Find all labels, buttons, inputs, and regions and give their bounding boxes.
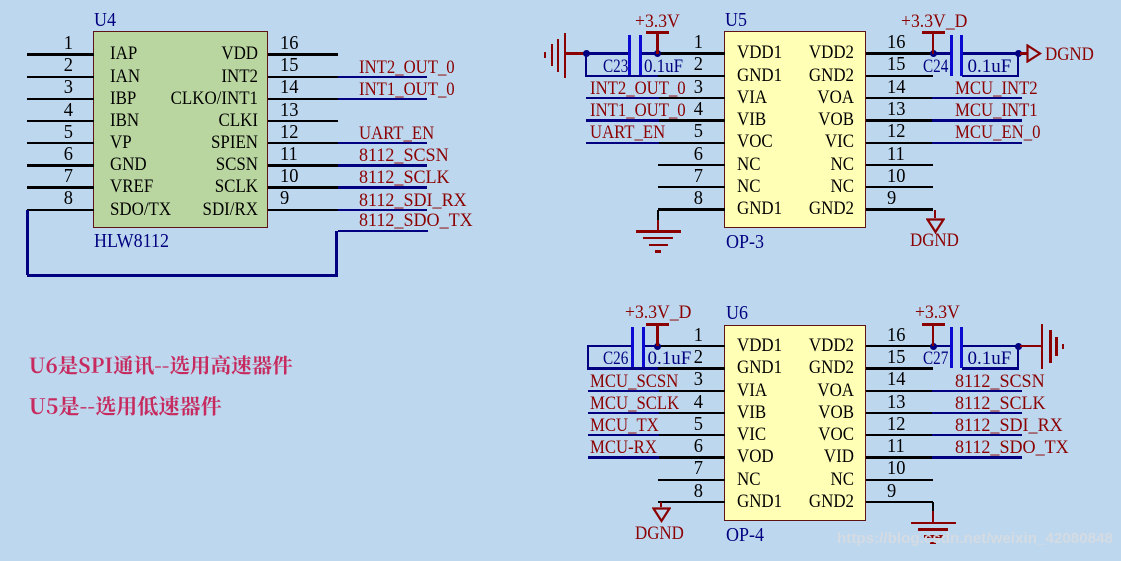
wire U4 pin8 down	[26, 210, 28, 276]
wire C23 left drop	[585, 54, 587, 76]
net label 8112_SCLK	[359, 168, 450, 187]
net label MCU_SCLK	[590, 394, 679, 413]
U4 pin name SPIEN	[142, 133, 258, 152]
wire C26 bottom to U6 pin2	[587, 367, 658, 369]
junction node U6 pin1	[654, 343, 661, 350]
capacitor value 0.1uF C23	[644, 57, 683, 76]
U5 pin 13 wire	[866, 119, 933, 121]
U6 pin 8 wire	[658, 501, 725, 503]
U6 pin name GND1	[737, 358, 782, 377]
power symbol +3.3V	[0, 0, 1121, 1]
U6 pin name VIC	[737, 425, 766, 444]
U6 pin 4 wire	[658, 412, 725, 414]
U5 pin name GND1	[737, 199, 782, 218]
U4 pin 6 wire	[27, 164, 94, 166]
U6 pin 3 number	[667, 369, 703, 390]
U5 pin 12 wire	[866, 142, 933, 144]
U5 pin name GND1	[737, 66, 782, 85]
part name HLW8112	[94, 231, 169, 251]
U4 pin 9 wire	[268, 209, 338, 211]
U6 pin 1 number	[667, 325, 703, 346]
power symbol +3.3V	[0, 0, 1121, 1]
U5 pin 16 wire	[866, 52, 933, 54]
U6 pin 10 number	[887, 458, 905, 479]
U5 pin 11 wire	[866, 164, 933, 166]
power label DGND U6 pin8	[635, 524, 684, 543]
U4 pin 15 number	[280, 55, 298, 76]
wire junction to earth	[1020, 345, 1043, 347]
designator U5	[725, 10, 747, 30]
U6 pin 7 number	[667, 458, 703, 479]
U6 pin 4 number	[667, 392, 703, 413]
net label 8112_SDI_RX	[359, 191, 467, 210]
wire C23 to junction	[642, 52, 657, 54]
wire net MCU_TX to U6	[588, 434, 659, 436]
U5 pin 9 wire	[866, 208, 933, 210]
capacitor C27 plates	[0, 0, 1121, 1]
U5 pin name NC	[738, 155, 854, 174]
U6 pin 13 wire	[866, 412, 933, 414]
U4 pin 4 wire	[27, 120, 94, 122]
U4 pin 14 number	[280, 77, 298, 98]
net label INT2_OUT_0	[590, 79, 686, 98]
wire net INT2_OUT_0 to U5	[586, 97, 659, 99]
U6 pin 6 wire	[658, 456, 725, 458]
net label MCU-RX	[590, 438, 657, 457]
U5 pin name VIC	[738, 132, 854, 151]
U4 pin 13 wire	[268, 120, 338, 122]
U4 pin name CLKO/INT1	[142, 89, 258, 108]
U5 pin 2 number	[667, 54, 703, 75]
wire net UART_EN to U5	[586, 142, 659, 144]
U5 pin 9 number	[887, 188, 896, 209]
wire U6 pin8 to DGND	[660, 502, 663, 507]
IC U5 OP-3 body	[724, 31, 866, 228]
U4 pin 1 wire	[27, 53, 94, 55]
U5 pin name NC	[738, 177, 854, 196]
capacitor C23 plates	[0, 0, 1121, 1]
U4 pin name IBN	[110, 111, 139, 130]
U4 pin 12 wire	[268, 142, 338, 144]
U6 pin 12 wire	[866, 434, 933, 436]
wire C26 left drop	[587, 346, 589, 367]
U5 pin 15 number	[887, 54, 905, 75]
wire net 8112_SCLK from U6	[932, 412, 1022, 414]
U5 pin 10 wire	[866, 186, 933, 188]
wire loop top to C26	[587, 345, 631, 347]
net label MCU_SCSN	[590, 372, 678, 391]
U4 pin 7 wire	[27, 186, 94, 188]
U4 pin 1 number	[37, 33, 73, 54]
U4 pin name VP	[110, 133, 132, 152]
wire U6 pin9 down	[932, 502, 934, 512]
U6 pin name VID	[738, 447, 854, 466]
capacitor value 0.1uF C24	[968, 57, 1012, 76]
U5 pin name VOB	[738, 110, 854, 129]
wire U5 pin9 to DGND	[934, 210, 937, 219]
power port DGND U5 right	[1026, 44, 1042, 63]
U4 pin 7 number	[37, 166, 73, 187]
watermark	[837, 530, 1113, 547]
net label MCU_EN_0	[955, 123, 1040, 142]
wire junction to C23	[588, 52, 629, 54]
U4 pin 9 number	[280, 188, 289, 209]
wire net MCU_EN_0 from U5	[932, 142, 1022, 144]
U4 pin 10 number	[280, 166, 298, 187]
U5 pin name VDD2	[738, 43, 854, 62]
IC U4 HLW8112 body	[93, 31, 268, 229]
junction node C24 right	[1015, 50, 1022, 57]
net label 8112_SCLK	[955, 394, 1046, 413]
U5 pin 12 number	[887, 121, 905, 142]
annotation text line 1 (Chinese) U6 SPI high-speed	[28, 354, 318, 380]
power label DGND U5 pin9	[910, 231, 959, 250]
capacitor designator C23	[603, 57, 628, 76]
net label 8112_SCSN	[359, 146, 449, 165]
wire junction to C27	[935, 345, 951, 347]
wire net INT2_OUT_0	[338, 76, 428, 78]
U4 pin name SCLK	[142, 177, 258, 196]
U5 pin 3 wire	[658, 97, 725, 99]
capacitor designator C26	[603, 349, 628, 368]
U6 pin 1 wire	[658, 345, 725, 347]
wire C27 bottom to U6 pin15	[962, 367, 1019, 369]
U4 pin 3 number	[37, 77, 73, 98]
U4 pin 2 wire	[27, 76, 94, 78]
U4 pin 11 wire	[268, 164, 338, 166]
U6 pin name VOB	[738, 403, 854, 422]
U6 pin 5 number	[667, 414, 703, 435]
U6 pin 14 number	[887, 369, 905, 390]
U5 pin 4 wire	[658, 119, 725, 121]
U6 pin name NC	[738, 470, 854, 489]
U6 pin 9 wire	[866, 501, 933, 503]
U6 pin 6 number	[667, 436, 703, 457]
U5 pin name GND2	[738, 199, 854, 218]
capacitor C26 plates	[0, 0, 1121, 1]
wire net INT1_OUT_0	[338, 98, 428, 100]
net label INT1_OUT_0	[359, 80, 455, 99]
U6 pin 13 number	[887, 392, 905, 413]
net label INT1_OUT_0	[590, 101, 686, 120]
U6 pin 3 wire	[658, 390, 725, 392]
U5 pin 5 number	[667, 121, 703, 142]
net label UART_EN	[359, 124, 434, 143]
U5 pin 2 wire	[658, 75, 725, 77]
wire net MCU-RX to U6	[588, 456, 659, 458]
U6 pin name VOD	[737, 447, 774, 466]
wire net 8112_SCSN from U6	[932, 390, 1022, 392]
part name OP-3	[726, 232, 764, 252]
U6 pin 16 wire	[866, 345, 933, 347]
junction node U6 pin16	[930, 343, 937, 350]
U6 pin 7 wire	[658, 479, 725, 481]
wire net 8112_SDI_RX from U6	[932, 434, 1022, 436]
net label MCU_TX	[590, 416, 659, 435]
U5 pin 8 wire	[658, 208, 725, 210]
junction node U5 pin16	[930, 50, 937, 57]
wire U5 pin8 down	[657, 210, 659, 221]
U6 pin 16 number	[887, 325, 905, 346]
U5 pin name VOC	[737, 132, 773, 151]
U5 pin 4 number	[667, 99, 703, 120]
wire junction to DGND port	[1020, 52, 1028, 54]
ground earth U5 pin8	[0, 0, 1121, 1]
U5 pin 14 wire	[866, 97, 933, 99]
wire C24 right drop	[1017, 54, 1019, 76]
U4 pin name IAP	[110, 44, 137, 63]
U4 pin 10 wire	[268, 186, 338, 188]
wire net 8112_SDO_TX from U6	[932, 456, 1022, 458]
U5 pin 15 wire	[866, 75, 933, 77]
U4 pin name GND	[110, 155, 147, 174]
power label +3.3V_D	[625, 303, 691, 322]
power label DGND right	[1045, 45, 1094, 64]
U4 pin 15 wire	[268, 76, 338, 78]
U5 pin 16 number	[887, 32, 905, 53]
U5 pin 6 number	[667, 144, 703, 165]
annotation text line 2 (Chinese) U5 low-speed	[28, 395, 258, 421]
U4 pin name IAN	[110, 67, 140, 86]
U4 pin 4 number	[37, 100, 73, 121]
U5 pin 10 number	[887, 166, 905, 187]
capacitor C24 plates	[0, 0, 1121, 1]
ground earth analog left of C23	[0, 0, 1121, 1]
power port DGND U6 pin8	[652, 507, 671, 523]
U6 pin 11 number	[887, 436, 905, 457]
U6 pin 2 wire	[658, 367, 725, 369]
U6 pin name GND1	[737, 492, 782, 511]
net label 8112_SDO_TX	[359, 211, 473, 230]
U4 pin 11 number	[280, 144, 298, 165]
U4 pin 12 number	[280, 122, 298, 143]
U6 pin name VOA	[738, 381, 854, 400]
wire ground to junction	[565, 52, 584, 54]
wire junction to C24	[935, 52, 951, 54]
U6 pin 10 wire	[866, 479, 933, 481]
U5 pin 14 number	[887, 77, 905, 98]
U6 pin name GND2	[738, 492, 854, 511]
U4 pin 13 number	[280, 100, 298, 121]
capacitor value 0.1uF C27	[968, 349, 1012, 368]
net label UART_EN	[590, 123, 665, 142]
U6 pin name VOC	[738, 425, 854, 444]
wire U4 bottom riser	[335, 231, 337, 276]
net label MCU_INT2	[955, 79, 1038, 98]
power symbol +3.3V_D	[0, 0, 1121, 1]
ground stem U5 pin8	[657, 220, 660, 232]
power port DGND U5 pin9	[926, 218, 945, 234]
U5 pin name VOA	[738, 88, 854, 107]
wire net 8112_SDO_TX	[338, 230, 429, 232]
net label INT2_OUT_0	[359, 58, 455, 77]
U4 pin 6 number	[37, 144, 73, 165]
U5 pin 13 number	[887, 99, 905, 120]
U4 pin 14 wire	[268, 98, 338, 100]
junction node C27 right	[1015, 343, 1022, 350]
U5 pin 5 wire	[658, 142, 725, 144]
junction node C23 left	[583, 50, 590, 57]
designator U6	[726, 303, 748, 323]
U4 pin 5 wire	[27, 142, 94, 144]
part name OP-4	[726, 525, 764, 545]
power label +3.3V_D	[901, 12, 967, 31]
U5 pin 3 number	[667, 77, 703, 98]
U4 pin name INT2	[142, 67, 258, 86]
U4 pin name IBP	[110, 89, 136, 108]
designator U4	[94, 10, 116, 30]
U4 pin 3 wire	[27, 98, 94, 100]
U4 pin name CLKI	[142, 111, 258, 130]
U6 pin 14 wire	[866, 390, 933, 392]
U6 pin 15 wire	[866, 367, 933, 369]
U6 pin 8 number	[667, 481, 703, 502]
net label 8112_SCSN	[955, 372, 1045, 391]
U6 pin name VIB	[737, 403, 766, 422]
wire C27 right drop	[1017, 346, 1019, 367]
U6 pin name VDD2	[738, 336, 854, 355]
U6 pin name VDD1	[737, 336, 782, 355]
U5 pin 7 number	[667, 166, 703, 187]
U6 pin name VIA	[737, 381, 767, 400]
U6 pin 9 number	[887, 481, 896, 502]
net label 8112_SDO_TX	[955, 438, 1069, 457]
U5 pin 7 wire	[658, 186, 725, 188]
U5 pin 6 wire	[658, 164, 725, 166]
U6 pin 15 number	[887, 347, 905, 368]
U6 pin 12 number	[887, 414, 905, 435]
U6 pin 5 wire	[658, 434, 725, 436]
U6 pin name NC	[737, 470, 761, 489]
U4 pin 2 number	[37, 55, 73, 76]
U5 pin 1 number	[667, 32, 703, 53]
wire C27 to junction	[963, 345, 1017, 347]
wire C24 to junction	[963, 52, 1017, 54]
capacitor designator C27	[923, 349, 948, 368]
U5 pin name NC	[737, 155, 761, 174]
ground earth right of C27	[0, 0, 1121, 1]
U4 pin name VREF	[110, 177, 153, 196]
U5 pin name GND2	[738, 66, 854, 85]
wire net MCU_INT2 from U5	[932, 97, 1022, 99]
power label +3.3V	[915, 303, 960, 322]
U4 pin 5 number	[37, 122, 73, 143]
capacitor value 0.1uF C26	[648, 349, 692, 368]
IC U6 OP-4 body	[724, 325, 866, 521]
power label +3.3V	[635, 12, 680, 31]
capacitor designator C24	[923, 57, 948, 76]
U4 pin name SDI/RX	[142, 200, 258, 219]
wire net INT1_OUT_0 to U5	[586, 119, 659, 121]
wire net MCU_SCSN to U6	[588, 390, 659, 392]
U6 pin 11 wire	[866, 456, 933, 458]
ground earth U6 pin9	[0, 0, 1121, 1]
net label MCU_INT1	[955, 101, 1038, 120]
U5 pin 1 wire	[658, 52, 725, 54]
U5 pin name NC	[737, 177, 761, 196]
wire C23 bottom to U5 pin2	[585, 75, 658, 77]
net label 8112_SDI_RX	[955, 416, 1063, 435]
wire net UART_EN	[338, 142, 428, 144]
wire net MCU_SCLK to U6	[588, 412, 659, 414]
wire net MCU_INT1 from U5	[932, 119, 1022, 121]
U5 pin name VIB	[737, 110, 766, 129]
junction node U5 pin1	[654, 50, 661, 57]
wire net 8112_SCSN	[338, 164, 428, 166]
U5 pin 8 number	[667, 188, 703, 209]
U6 pin name GND2	[738, 358, 854, 377]
wire C24 bottom to U5 pin15	[962, 75, 1019, 77]
U4 pin name SCSN	[142, 155, 258, 174]
U4 pin 16 number	[280, 33, 298, 54]
U4 pin name SDO/TX	[110, 200, 171, 219]
U4 pin name VDD	[142, 44, 258, 63]
power symbol +3.3V_D	[0, 0, 1121, 1]
U5 pin name VDD1	[737, 43, 782, 62]
U4 pin 16 wire	[268, 53, 338, 55]
U4 pin 8 number	[37, 188, 73, 209]
U6 pin 2 number	[667, 347, 703, 368]
U5 pin 11 number	[887, 144, 905, 165]
wire U4 bottom	[27, 274, 338, 276]
U4 pin 8 wire	[27, 209, 94, 211]
wire net 8112_SCLK	[338, 186, 428, 188]
wire net 8112_SDI_RX	[338, 209, 428, 211]
U5 pin name VIA	[737, 88, 767, 107]
wire C26 to junction	[645, 345, 657, 347]
ground stem U6 pin9	[932, 511, 935, 523]
